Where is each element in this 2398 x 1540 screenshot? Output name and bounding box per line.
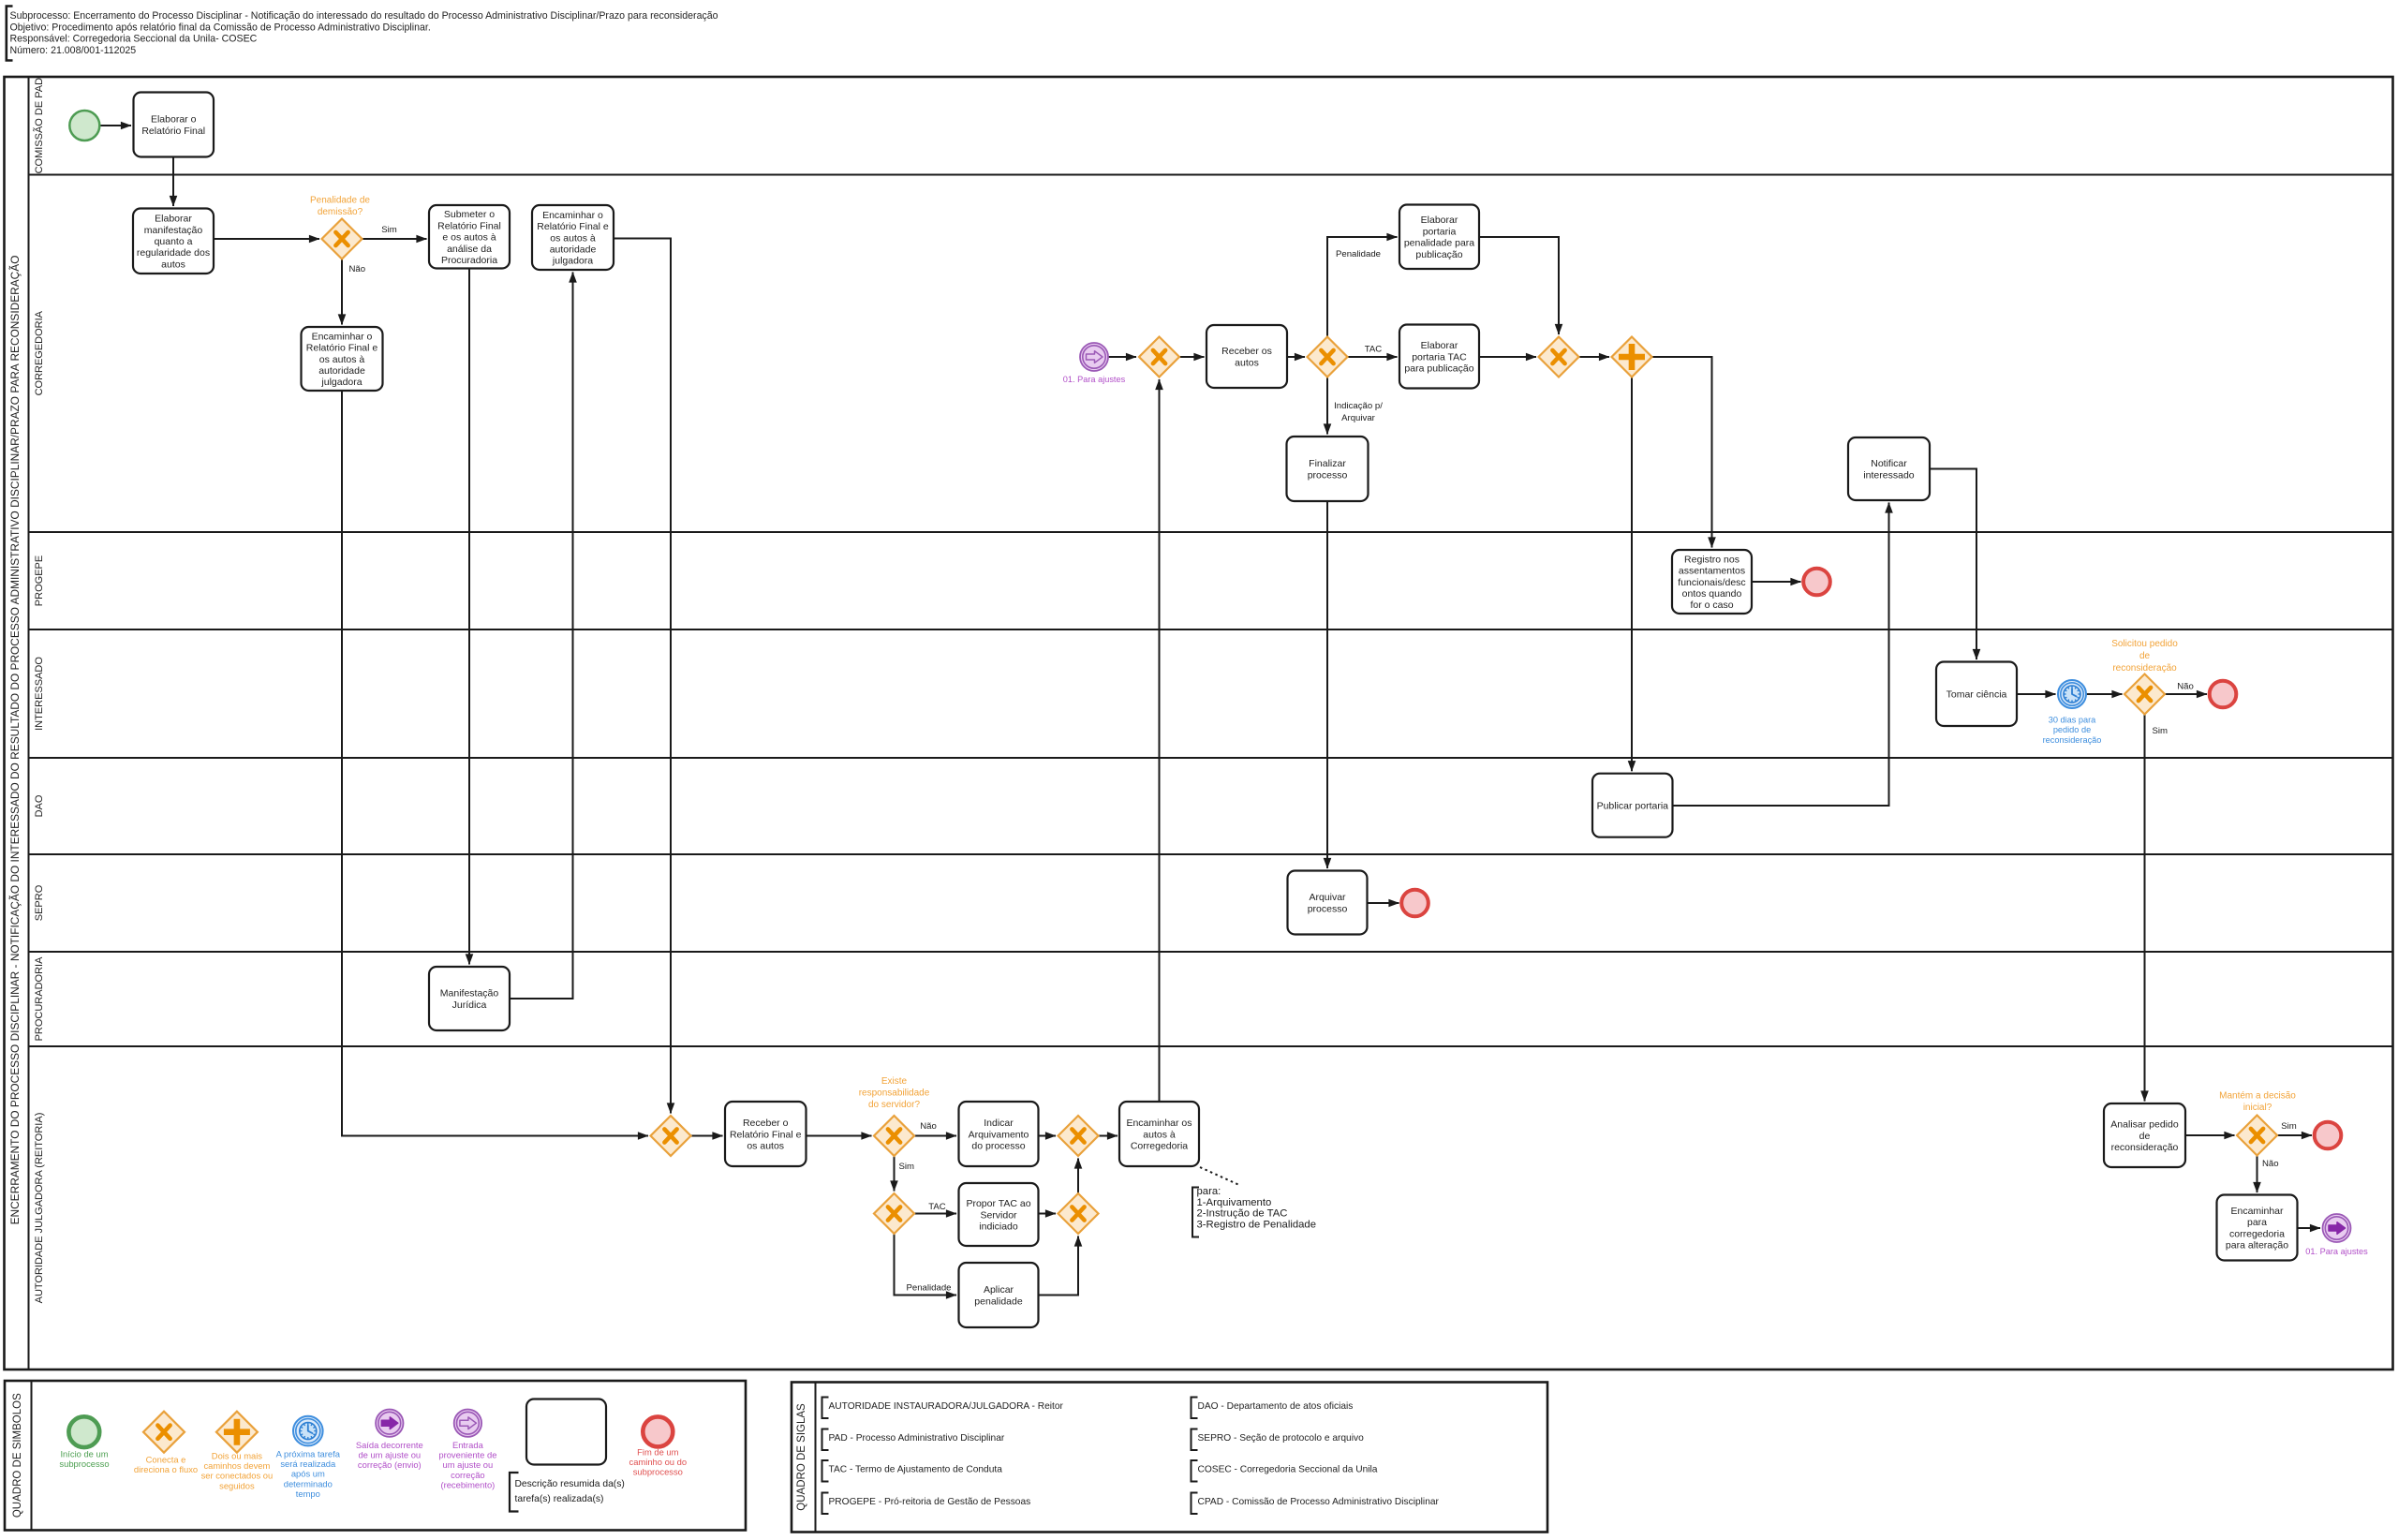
gateway (XOR): Solicitou pedido de reconsideração [2124, 674, 2165, 715]
wire: E2 to G2 [1108, 356, 1136, 358]
svg-text:PROGEPE: PROGEPE [34, 555, 45, 606]
wire: G1 Nao down to T5 [341, 259, 343, 325]
wire: G6 Nao to E5 [2165, 693, 2207, 695]
task: Tomar ciência [1936, 662, 2017, 727]
wire: T4 right down to G7 [614, 239, 671, 1114]
task: Elaborar portaria penalidade para publicação [1399, 205, 1479, 270]
wire: T15 right up to T4 [510, 273, 573, 1000]
wire: G11 up to G9 [1077, 1159, 1079, 1194]
intermediate event (send): 01. Para ajustes (envio) [2323, 1214, 2351, 1242]
wire: G8 Nao to T17 [914, 1135, 956, 1137]
task: Receber os autos [1206, 325, 1287, 388]
svg-text:AUTORIDADE INSTAURADORA/JULGAD: AUTORIDADE INSTAURADORA/JULGADORA - Reit… [829, 1401, 1064, 1412]
svg-text:Penalidade: Penalidade [1336, 249, 1381, 259]
task: Manifestação Jurídica [429, 967, 510, 1030]
gateway (parallel): legend parallel [216, 1412, 258, 1453]
task: Elaborar manifestação quanto a regularidade dos autos [133, 209, 214, 274]
wire: G1 Sim to T3 [363, 238, 427, 240]
gateway (XOR): merge antes de Encaminhar os autos [1058, 1116, 1099, 1156]
svg-text:Sim: Sim [899, 1162, 915, 1172]
svg-text:para:1-Arquivamento2-Instrução: para:1-Arquivamento2-Instrução de TAC3-R… [1197, 1186, 1317, 1230]
svg-text:PROGEPE - Pró-reitoria de Gest: PROGEPE - Pró-reitoria de Gestão de Pess… [829, 1497, 1031, 1507]
svg-text:Conecta edireciona o fluxo: Conecta edireciona o fluxo [134, 1455, 198, 1475]
annotation bracket: para: 1-Arquivamento... [1192, 1188, 1199, 1237]
svg-text:Publicar portaria: Publicar portaria [1597, 801, 1669, 812]
svg-text:Não: Não [920, 1121, 937, 1132]
timer event: legend timer [293, 1416, 323, 1446]
svg-text:TAC - Termo de Ajustamento de: TAC - Termo de Ajustamento de Conduta [829, 1465, 1003, 1475]
sigla: CPAD [1192, 1493, 1198, 1515]
lane boundary 3 [29, 629, 2393, 630]
lane boundary 2 [29, 531, 2393, 533]
svg-text:SEPRO: SEPRO [34, 884, 45, 921]
svg-text:Notificarinteressado: Notificarinteressado [1863, 458, 1914, 481]
task: Publicar portaria [1592, 774, 1673, 837]
end event: legend fim [643, 1416, 673, 1446]
wire: G5 right down to T11 [1652, 357, 1712, 548]
start event: início [69, 111, 99, 141]
wire: T13 right up to T10 [1673, 503, 1889, 807]
wire: T2 to G1 [214, 238, 319, 240]
svg-text:Sim: Sim [381, 225, 397, 235]
task: Encaminhar os autos à Corregedoria [1119, 1102, 1199, 1166]
wire: G3 TAC to T8 [1348, 356, 1398, 358]
svg-text:Penalidade dedemissão?: Penalidade dedemissão? [310, 196, 370, 218]
wire: T20 right up to G11 [1039, 1236, 1079, 1296]
wire: G3 down to T9 [1326, 378, 1328, 435]
task: Analisar pedido de reconsideração [2104, 1103, 2185, 1167]
wire: G6 Sim down to T21 [2144, 715, 2146, 1102]
lane boundary 5 [29, 853, 2393, 855]
end event: fim REITORIA [2315, 1122, 2342, 1149]
svg-text:01. Para ajustes: 01. Para ajustes [1063, 375, 1126, 384]
task: Arquivar processo [1288, 871, 1368, 935]
sigla: AUTORIDADE INSTAURADORA/JULGADORA [822, 1398, 829, 1419]
wire: T9 down to T14 [1326, 501, 1328, 868]
wire: T8 to G4 [1479, 356, 1536, 358]
svg-text:CORREGEDORIA: CORREGEDORIA [34, 310, 45, 395]
svg-text:Submeter oRelatório Finale os: Submeter oRelatório Finale os autos àaná… [437, 209, 501, 266]
task: Submeter o Relatório Final e os autos à análise da Procuradoria [429, 205, 510, 269]
svg-text:SEPRO - Seção de protocolo e a: SEPRO - Seção de protocolo e arquivo [1198, 1433, 1365, 1444]
svg-text:Mantém a decisãoinicial?: Mantém a decisãoinicial? [2219, 1091, 2296, 1114]
wire: G12 Nao down to T22 [2257, 1156, 2258, 1193]
wire: T3 down to T15 [468, 269, 470, 965]
sigla: PROGEPE [822, 1493, 829, 1515]
task: Propor TAC ao Servidor indiciado [959, 1183, 1039, 1246]
svg-text:PAD - Processo Administrativo: PAD - Processo Administrativo Disciplina… [829, 1433, 1005, 1444]
lane boundary 4 [29, 757, 2393, 759]
task: Elaborar o Relatório Final [134, 93, 215, 157]
svg-text:Tomar ciência: Tomar ciência [1947, 689, 2007, 701]
gateway (XOR): Penalidade de demissão? [322, 219, 363, 259]
svg-text:DAO: DAO [34, 794, 45, 817]
svg-text:Finalizarprocesso: Finalizarprocesso [1308, 458, 1348, 481]
wire: G4 to G5 [1579, 356, 1610, 358]
start event: legend início [68, 1416, 99, 1447]
lane boundary 7 [29, 1045, 2393, 1047]
intermediate event (receive): 01. Para ajustes (recebimento) [1080, 343, 1108, 371]
svg-text:PROCURADORIA: PROCURADORIA [34, 956, 45, 1042]
svg-text:Penalidade: Penalidade [906, 1283, 951, 1294]
header bracket [7, 7, 13, 61]
svg-text:Fim de umcaminho ou dosubproce: Fim de umcaminho ou dosubprocesso [629, 1447, 688, 1477]
wire: G3 Penalidade up to T7 [1327, 237, 1398, 337]
svg-text:Não: Não [2262, 1159, 2279, 1169]
task: Receber o Relatório Final e os autos [725, 1102, 807, 1166]
task: Encaminhar o Relatório Final e os autos à autoridade julgadora [302, 327, 383, 391]
sigla: COSEC [1192, 1460, 1198, 1482]
svg-text:Descrição resumida da(s)tarefa: Descrição resumida da(s)tarefa(s) realiz… [515, 1479, 625, 1504]
svg-text:COMISSÃO DE PAD: COMISSÃO DE PAD [33, 78, 45, 174]
svg-text:Indicação p/Arquivar: Indicação p/Arquivar [1334, 401, 1383, 423]
gateway (parallel): paralela publicação/registro [1612, 337, 1652, 378]
gateway (XOR): TAC ou Penalidade [874, 1193, 914, 1234]
svg-text:01. Para ajustes: 01. Para ajustes [2305, 1247, 2368, 1256]
wire: T7 right down to G4 [1479, 237, 1559, 334]
svg-text:DAO - Departamento de atos ofi: DAO - Departamento de atos oficiais [1198, 1401, 1354, 1412]
wire: G5 down to T13 [1631, 378, 1633, 772]
wire: T17 to G9 [1039, 1135, 1057, 1137]
task: Registro nos assentamentos funcionais/descontos quando for o caso [1672, 550, 1752, 614]
legend description bracket [510, 1473, 519, 1512]
svg-text:Saída decorrentede um ajuste o: Saída decorrentede um ajuste oucorreção … [356, 1440, 423, 1470]
svg-text:Encaminharparacorregedoriapara: Encaminharparacorregedoriapara alteração [2226, 1206, 2288, 1251]
svg-text:Sim: Sim [2153, 726, 2169, 736]
wire: G10 Penalidade to T20 [895, 1234, 957, 1296]
lane boundary 1 [29, 174, 2393, 176]
legend box: QUADRO DE SIMBOLOS [5, 1381, 746, 1531]
intermediate event (receive): legend entrada [454, 1410, 481, 1437]
svg-text:AUTORIDADE JULGADORA (REITORIA: AUTORIDADE JULGADORA (REITORIA) [34, 1113, 45, 1304]
svg-text:Sim: Sim [2281, 1121, 2297, 1132]
sigla: SEPRO [1192, 1429, 1198, 1451]
sigla: DAO [1192, 1398, 1198, 1419]
wire: T19 to G11 [1039, 1213, 1057, 1215]
lane boundary 6 [29, 951, 2393, 953]
svg-text:Dois ou maiscaminhos devemser: Dois ou maiscaminhos devemser conectados… [201, 1451, 274, 1491]
wire: T21 to G12 [2185, 1134, 2235, 1136]
task: Indicar Arquivamento do processo [959, 1102, 1039, 1166]
svg-text:Arquivarprocesso: Arquivarprocesso [1308, 892, 1348, 914]
pool label separator [28, 77, 30, 1370]
gateway (XOR): merge portarias [1539, 337, 1579, 378]
wire: G10 TAC to T19 [914, 1213, 956, 1215]
wire: G7 to T16 [691, 1135, 723, 1137]
svg-text:Não: Não [2177, 682, 2194, 692]
timer event: 30 dias para pedido de reconsideração [2058, 680, 2086, 708]
gateway (XOR): merge entrada reitoria [651, 1116, 691, 1156]
wire: E1 to T1 [99, 125, 131, 126]
task: Elaborar portaria TAC para publicação [1399, 325, 1479, 389]
svg-text:A próxima tarefaserá realizada: A próxima tarefaserá realizadaapós umdet… [276, 1449, 341, 1499]
wire: T11 to E3 [1752, 581, 1801, 583]
svg-text:Não: Não [349, 264, 366, 274]
svg-text:COSEC - Corregedoria Seccional: COSEC - Corregedoria Seccional da Unila [1198, 1465, 1378, 1475]
wire: G12 Sim to E7 [2277, 1134, 2312, 1136]
intermediate event (send): legend saída [376, 1410, 403, 1437]
gateway (XOR): merge before Receber os autos [1139, 337, 1179, 378]
svg-text:TAC: TAC [1365, 345, 1383, 355]
task: Notificar interessado [1848, 437, 1930, 500]
svg-text:INTERESSADO: INTERESSADO [34, 657, 45, 731]
svg-text:Entradaproveniente deum ajuste: Entradaproveniente deum ajuste oucorreçã… [438, 1440, 496, 1489]
wire: G9 to T18 [1099, 1135, 1118, 1137]
wire: T16 to G8 [807, 1135, 872, 1137]
end event: fim INTERESSADO [2210, 681, 2237, 708]
svg-text:ENCERRAMENTO DO PROCESSO DISCI: ENCERRAMENTO DO PROCESSO DISCIPLINAR - N… [8, 256, 22, 1225]
end event: fim PROGEPE [1803, 569, 1830, 596]
svg-text:QUADRO DE SIGLAS: QUADRO DE SIGLAS [796, 1403, 807, 1511]
gateway (XOR): Existe responsabilidade do servidor? [874, 1116, 914, 1156]
svg-text:Elaborar oRelatório Final: Elaborar oRelatório Final [141, 114, 205, 137]
task: Encaminhar para corregedoria para alteração [2217, 1195, 2298, 1261]
task: Encaminhar o Relatório Final e os autos à autoridade julgadora (via Procuradoria) [532, 205, 614, 270]
wire: T5 down right to G7 [342, 391, 648, 1136]
task: Aplicar penalidade [959, 1263, 1039, 1327]
wire: T10 right down to T12 [1930, 469, 1976, 660]
svg-text:Solicitou pedidodereconsideraç: Solicitou pedidodereconsideração [2111, 639, 2178, 674]
wire: G2 to T6 [1179, 356, 1205, 358]
svg-text:Início de umsubprocesso: Início de umsubprocesso [59, 1449, 109, 1470]
svg-text:QUADRO DE SIMBOLOS: QUADRO DE SIMBOLOS [12, 1393, 23, 1518]
sigla: PAD [822, 1429, 829, 1451]
svg-text:TAC: TAC [928, 1202, 946, 1212]
wire: T18 up to G2 [1159, 379, 1161, 1102]
svg-text:CPAD - Comissão de Processo Ad: CPAD - Comissão de Processo Administrati… [1198, 1497, 1440, 1507]
legend box: QUADRO DE SIGLAS [792, 1383, 1547, 1533]
wire: annotation link [1200, 1167, 1240, 1186]
wire: T22 to E8 [2298, 1227, 2321, 1229]
end event: fim SEPRO [1401, 890, 1428, 917]
wire: T12 to E4 [2017, 693, 2056, 695]
sigla: TAC [822, 1460, 829, 1482]
svg-text:Subprocesso: Encerramento do P: Subprocesso: Encerramento do Processo Di… [10, 10, 718, 56]
wire: T6 to G3 [1287, 356, 1305, 358]
gateway (XOR): merge TAC/penalidade [1058, 1193, 1099, 1234]
wire: T1 down to T2 [172, 157, 174, 207]
svg-text:30 dias parapedido dereconside: 30 dias parapedido dereconsideração [2043, 716, 2102, 745]
gateway (XOR): Mantém a decisão inicial? [2237, 1116, 2277, 1156]
wire: E4 to G6 [2086, 693, 2123, 695]
gateway (XOR): decisão da autoridade (TAC/Penalidade/Arquivar) [1308, 337, 1348, 378]
gateway (XOR): legend XOR [143, 1412, 185, 1453]
svg-text:Existeresponsabilidadedo servi: Existeresponsabilidadedo servidor? [859, 1076, 930, 1110]
task: Finalizar processo [1287, 437, 1369, 501]
legend task shape [526, 1399, 606, 1465]
wire: G8 Sim down to G10 [894, 1156, 896, 1192]
wire: T14 to E6 [1367, 902, 1399, 904]
